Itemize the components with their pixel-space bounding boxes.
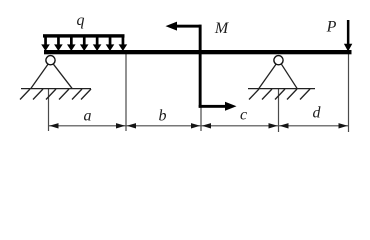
svg-text:c: c <box>240 107 247 124</box>
svg-text:P: P <box>326 19 337 36</box>
svg-text:b: b <box>159 107 167 124</box>
svg-text:a: a <box>84 107 92 124</box>
svg-text:M: M <box>214 20 230 37</box>
svg-text:d: d <box>313 105 322 122</box>
svg-text:q: q <box>77 12 85 29</box>
